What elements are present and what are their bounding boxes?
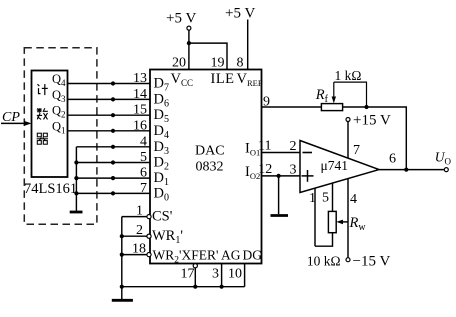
wire +5V to VCC pin20	[188, 30, 190, 69]
junction dot AG	[220, 285, 224, 289]
wire +5V to VREF pin8	[247, 20, 249, 70]
wire pin1 offset null	[314, 188, 316, 246]
wire WR1	[122, 235, 147, 237]
svg-text:μ741: μ741	[321, 158, 349, 173]
wire D3-D0 tie bracket	[75, 147, 77, 211]
junction dot WR1	[120, 234, 124, 238]
op-amp U1 mu741	[300, 141, 379, 193]
bubble XFER active low	[193, 264, 197, 268]
svg-text:4: 4	[140, 134, 147, 149]
junction dot output-feedback	[404, 168, 408, 172]
junction dot pointer-wire	[364, 105, 368, 109]
ground control	[112, 299, 133, 302]
DAC0832 chip body	[150, 70, 262, 264]
wire IO1 to op-amp inverting input	[262, 152, 301, 154]
arrowhead value pointer	[332, 97, 336, 104]
svg-text:1 kΩ: 1 kΩ	[335, 68, 362, 83]
wire Q1 to D4	[68, 130, 151, 132]
wire Q4 to D7	[68, 83, 151, 85]
junction dot +5V	[187, 41, 191, 45]
svg-text:3: 3	[212, 267, 219, 282]
counter label 计	[38, 84, 48, 95]
ground IO2	[271, 214, 289, 217]
junction dot WR2	[120, 253, 124, 257]
svg-text:AG: AG	[221, 248, 241, 263]
counter label 器	[37, 133, 48, 144]
svg-text:+5 V: +5 V	[166, 11, 196, 27]
svg-text:12: 12	[258, 162, 272, 177]
wire IO2 to op-amp noninverting input	[262, 175, 301, 177]
wire bottom ground bus	[122, 286, 245, 288]
svg-text:5: 5	[322, 191, 329, 206]
svg-text:7: 7	[140, 181, 147, 196]
svg-text:−15 V: −15 V	[353, 254, 391, 270]
junction dot XFER	[193, 285, 197, 289]
wire D3	[76, 146, 150, 148]
wire Rf to feedback corner	[343, 107, 407, 170]
svg-text:10 kΩ: 10 kΩ	[307, 254, 341, 269]
svg-text:19: 19	[211, 56, 225, 71]
wire control bracket	[121, 217, 123, 299]
wire CP input	[1, 122, 26, 124]
svg-text:ILE: ILE	[211, 71, 235, 87]
pointer 1 kOhm to Rf	[334, 82, 367, 107]
wire IO2 to ground	[278, 176, 280, 214]
wire pin7 to +15V	[347, 122, 349, 159]
svg-text:0832: 0832	[196, 160, 224, 175]
junction dots on data lines	[111, 81, 115, 195]
svg-text:14: 14	[133, 87, 147, 102]
wire pin9 to Rf	[262, 106, 322, 108]
svg-text:17: 17	[181, 267, 195, 282]
svg-text:20: 20	[172, 56, 186, 71]
arrowhead wiper	[336, 220, 343, 225]
wire pin4 to -15V	[347, 179, 349, 258]
svg-text:CS': CS'	[152, 209, 172, 225]
wire output	[379, 169, 444, 171]
svg-text:+5 V: +5 V	[225, 6, 255, 22]
plus sign noninverting input	[302, 170, 314, 182]
bubble WR1 active low	[147, 234, 151, 238]
wire CS	[122, 216, 147, 218]
svg-text:6: 6	[140, 166, 147, 181]
junction dot bottom wire	[120, 285, 124, 289]
wire XFER	[194, 268, 196, 287]
minus sign inverting input	[303, 152, 313, 154]
terminal +15V	[346, 118, 350, 122]
arrowhead CP into counter	[24, 121, 32, 126]
potentiometer Rw	[328, 211, 336, 232]
svg-text:5: 5	[140, 150, 147, 165]
wire D2	[76, 162, 150, 164]
wire D0	[76, 192, 150, 194]
wire pot bottom	[315, 233, 333, 247]
svg-text:10: 10	[228, 267, 242, 282]
wire DG	[244, 264, 246, 287]
terminal UO	[444, 168, 448, 172]
wire D1	[76, 177, 150, 179]
wire pin5 to pot	[332, 183, 334, 211]
svg-text:15: 15	[133, 103, 147, 118]
svg-text:XFER': XFER'	[182, 248, 219, 263]
wire Q3 to D6	[68, 98, 151, 100]
resistor Rf	[321, 104, 342, 111]
svg-text:DAC: DAC	[195, 144, 225, 159]
wire Q2 to D5	[68, 114, 151, 116]
bubble WR2 active low	[147, 253, 151, 257]
junction dot IO2 ground	[277, 174, 281, 178]
svg-text:7: 7	[353, 143, 360, 158]
svg-text:DG: DG	[243, 248, 263, 263]
svg-text:4: 4	[350, 192, 357, 207]
svg-text:11: 11	[258, 138, 271, 153]
counter box 74LS161	[32, 71, 68, 178]
dashed box around counter	[24, 48, 97, 225]
svg-text:8: 8	[237, 56, 244, 71]
svg-text:74LS161: 74LS161	[24, 181, 77, 197]
bubble CS active low	[147, 215, 151, 219]
svg-text:2: 2	[290, 139, 297, 154]
wire WR2	[122, 254, 147, 256]
svg-text:13: 13	[133, 71, 147, 86]
svg-text:3: 3	[290, 162, 297, 177]
counter label 数	[37, 108, 48, 119]
svg-text:16: 16	[133, 118, 147, 133]
terminal -15V	[346, 258, 350, 262]
terminal +5V left	[187, 26, 191, 30]
svg-text:6: 6	[389, 152, 396, 167]
wire to ILE pin19	[189, 43, 227, 69]
wiper wire to -15V line	[340, 221, 348, 223]
svg-text:+15 V: +15 V	[353, 113, 391, 129]
ground for D3-D0	[70, 211, 83, 214]
junction dots on tie bracket	[74, 160, 78, 195]
wire AG	[221, 264, 223, 287]
